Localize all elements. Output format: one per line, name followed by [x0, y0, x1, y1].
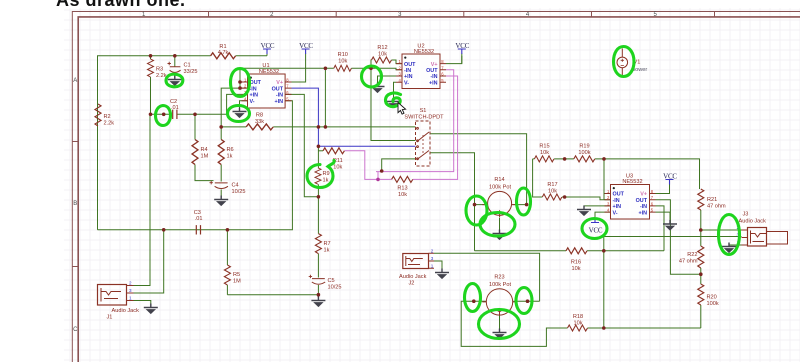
wire R11 left stub	[318, 150, 323, 152]
wire R4 column	[195, 114, 214, 180]
wire U3 pin6 feedback	[656, 206, 665, 251]
capacitor C4	[210, 181, 246, 196]
resistor R9	[315, 168, 330, 184]
svg-text:2: 2	[129, 281, 132, 286]
power flag VCC (U3 V- below)	[589, 218, 603, 235]
svg-text:R5: R5	[233, 272, 240, 278]
ground (U3 +IN)	[577, 206, 591, 217]
power flag VCC (U3 top)	[663, 173, 677, 185]
svg-text:C4: C4	[232, 183, 239, 189]
wire R6 column to C4	[220, 127, 222, 182]
svg-text:V-: V-	[613, 211, 618, 217]
svg-text:+IN: +IN	[250, 93, 259, 99]
svg-text:R2: R2	[104, 114, 111, 120]
mouse cursor	[398, 103, 406, 115]
wire U3 pin7 out loop	[656, 200, 701, 275]
svg-text:NE5532: NE5532	[414, 49, 434, 55]
resistor R6	[218, 140, 233, 165]
svg-text:V-: V-	[404, 81, 409, 87]
wire U3 pin4 to VCC below	[595, 212, 611, 217]
svg-text:4.7k: 4.7k	[218, 50, 229, 56]
svg-text:VCC: VCC	[261, 42, 275, 50]
ground (U2 +IN)	[371, 83, 385, 94]
annotation circle (V1)	[614, 47, 635, 77]
pink net U2 pin6 to R13 right	[413, 76, 458, 179]
wire J3 pin2 row	[701, 229, 742, 231]
wire switch pin4 drop	[382, 159, 416, 171]
svg-text:R6: R6	[227, 147, 234, 153]
resistor R3	[148, 59, 167, 79]
wire U1 pin4 to ground	[240, 101, 248, 108]
svg-text:47 ohm: 47 ohm	[679, 259, 698, 265]
svg-text:R10: R10	[338, 52, 348, 58]
wire pot R14 wiper	[499, 218, 501, 231]
svg-text:R19: R19	[579, 144, 589, 150]
wire row 114 C2 R4 to U1 pin3	[151, 94, 242, 114]
svg-text:V+: V+	[640, 192, 647, 198]
svg-text:10k: 10k	[571, 266, 580, 272]
svg-text:10k: 10k	[333, 165, 342, 171]
wire J2 pin3 ground	[434, 261, 442, 270]
annotation circles (R23 pot)	[465, 284, 481, 312]
svg-text:R7: R7	[324, 241, 331, 247]
resistor R19	[574, 144, 595, 162]
frame column numbers	[73, 12, 657, 333]
capacitor C3	[194, 210, 203, 235]
svg-text:1k: 1k	[324, 248, 330, 254]
svg-text:1k: 1k	[323, 178, 329, 184]
svg-text:V+: V+	[276, 80, 283, 86]
ground (R14 wiper)	[493, 230, 507, 241]
svg-text:33k: 33k	[255, 119, 264, 125]
svg-text:OUT: OUT	[404, 62, 416, 68]
svg-text:R14: R14	[494, 177, 504, 183]
svg-text:Audio Jack: Audio Jack	[399, 274, 427, 280]
svg-text:A: A	[73, 78, 77, 84]
resistor R12	[372, 45, 392, 63]
svg-text:2.2k: 2.2k	[104, 121, 115, 127]
svg-text:R17: R17	[547, 182, 557, 188]
ground (J3)	[722, 243, 736, 254]
ground (J2)	[435, 269, 449, 280]
wire J3 pin3 row	[604, 236, 742, 238]
svg-text:100k: 100k	[707, 301, 719, 307]
svg-text:J3: J3	[743, 212, 749, 218]
svg-text:S1: S1	[420, 108, 427, 114]
resistor R18	[568, 314, 588, 331]
svg-text:V+: V+	[431, 62, 438, 68]
wire C1 stub	[174, 56, 176, 78]
op-amp U2 NE5532	[396, 44, 446, 89]
resistor R5	[224, 265, 241, 285]
svg-text:1: 1	[431, 263, 434, 268]
svg-text:R4: R4	[201, 147, 208, 153]
svg-text:SWITCH-DPDT: SWITCH-DPDT	[404, 115, 444, 121]
svg-text:1k: 1k	[227, 154, 233, 160]
wire U1 pin6 down to R9 bottom	[285, 94, 318, 196]
svg-text:10k: 10k	[548, 189, 557, 195]
wire left loop top row	[98, 56, 268, 230]
svg-text:100k: 100k	[578, 150, 590, 156]
wire R3 column	[150, 56, 152, 115]
wire U2 pin3 to ground	[378, 76, 397, 83]
wire R7 column C5	[227, 197, 318, 298]
svg-text:10k: 10k	[573, 321, 582, 327]
capacitor C5	[309, 275, 342, 291]
svg-text:100k Pot: 100k Pot	[489, 282, 512, 288]
resistor R4	[192, 140, 209, 165]
resistor R17	[542, 182, 562, 200]
svg-text:10k: 10k	[540, 150, 549, 156]
power flag VCC (U2)	[455, 42, 469, 54]
power flag VCC (U1 area right)	[299, 42, 313, 54]
svg-text:VCC: VCC	[663, 173, 677, 181]
svg-text:+IN: +IN	[613, 204, 622, 210]
svg-text:-IN: -IN	[430, 74, 437, 80]
svg-text:V-: V-	[250, 99, 255, 105]
wire J1 pin1 to ground	[134, 301, 151, 304]
wire V1 stubs	[621, 49, 623, 77]
ground (J1)	[144, 304, 158, 315]
wire U2 pin8 to VCC	[446, 54, 462, 64]
wire U1 pin2 to R6 top	[221, 88, 241, 127]
svg-text:OUT: OUT	[426, 68, 438, 74]
svg-text:OUT: OUT	[250, 80, 262, 86]
wire switch out B to pot R14 left down to R16 row	[430, 153, 486, 251]
resistor R10	[334, 52, 352, 71]
power flag VCC (U1 area left)	[261, 42, 275, 54]
resistor R2	[95, 104, 114, 127]
svg-text:10/25: 10/25	[232, 189, 246, 195]
resistor R16	[566, 248, 587, 272]
svg-text:10k: 10k	[398, 192, 407, 198]
svg-text:-IN: -IN	[613, 198, 620, 204]
wire U3 pin3 ground	[584, 205, 611, 208]
svg-text:VCC: VCC	[455, 42, 469, 50]
svg-text:C: C	[73, 327, 78, 333]
wire J1 pin3 riser	[134, 230, 164, 293]
wire pot R23 left bottom loop R18	[461, 301, 701, 346]
svg-text:100k Pot: 100k Pot	[489, 185, 512, 191]
svg-text:VCC: VCC	[589, 227, 603, 235]
ground (R23 wiper)	[493, 329, 507, 340]
wire U2 VCC link	[461, 56, 463, 64]
wire R21 R22 column	[700, 210, 702, 328]
capacitor C1	[168, 62, 198, 75]
svg-text:-IN: -IN	[404, 68, 411, 74]
svg-text:R12: R12	[377, 45, 387, 51]
svg-text:47 ohm: 47 ohm	[707, 204, 726, 210]
wire J2 pin2 to pot R23 right	[434, 253, 540, 301]
svg-text:OUT: OUT	[272, 86, 284, 92]
svg-text:C5: C5	[328, 278, 335, 284]
svg-text:.01: .01	[171, 105, 179, 111]
svg-text:R13: R13	[397, 186, 407, 192]
wire U1 pin5 to row 230	[98, 101, 293, 230]
audio jack J1	[98, 281, 140, 321]
annotation circle (U1 input pins)	[231, 69, 250, 97]
svg-text:1M: 1M	[201, 154, 209, 160]
annotation circle (U2 corner ground)	[362, 66, 382, 87]
junction dot (pink net)	[376, 178, 380, 182]
resistor R7	[315, 234, 330, 254]
ground (U1 V-)	[233, 108, 247, 119]
wire R16 row	[475, 250, 665, 252]
svg-text:J1: J1	[107, 315, 113, 321]
ground (C1)	[168, 76, 182, 87]
svg-text:Audio Jack: Audio Jack	[112, 308, 140, 314]
resistor R13	[392, 176, 413, 198]
svg-text:R22: R22	[687, 252, 697, 258]
wire J3 pin1 ground	[729, 244, 742, 247]
annotation circle (C2 junction)	[156, 106, 171, 126]
svg-text:R23: R23	[494, 275, 504, 281]
wire U1 out node	[240, 68, 402, 88]
wire R8 feedback row 127	[221, 126, 415, 128]
svg-text:+IN: +IN	[274, 99, 283, 105]
wire R15 R19 row	[533, 159, 700, 189]
svg-text:B: B	[73, 201, 77, 207]
svg-text:R20: R20	[707, 295, 717, 301]
svg-text:R9: R9	[323, 171, 330, 177]
wire R15 left to R17	[533, 159, 611, 200]
blue net U1 out B to switch	[292, 88, 416, 146]
svg-text:+IN: +IN	[429, 81, 438, 87]
svg-text:1M: 1M	[233, 279, 241, 285]
wire pot R23 wiper	[499, 315, 501, 330]
audio jack J2	[399, 248, 434, 286]
wire R18 R16 link riser	[603, 237, 605, 329]
annotation circles (R14 pot)	[466, 196, 487, 225]
ground (C4)	[214, 196, 228, 207]
wire R9 column	[317, 146, 319, 197]
svg-text:+IN: +IN	[404, 74, 413, 80]
annotation circle (R9)	[307, 161, 334, 188]
svg-text:-IN: -IN	[640, 204, 647, 210]
svg-text:R3: R3	[156, 67, 163, 73]
switch S1 SWITCH-DPDT	[404, 108, 444, 166]
ground (C5)	[311, 297, 325, 308]
svg-text:U1: U1	[262, 63, 269, 69]
wire R5 column	[226, 230, 228, 295]
capacitor C2	[170, 99, 179, 119]
voltage source V1 power	[617, 57, 647, 73]
svg-text:10k: 10k	[378, 52, 387, 58]
svg-text:C1: C1	[184, 63, 191, 69]
svg-text:NE5532: NE5532	[622, 179, 642, 185]
svg-text:3: 3	[431, 256, 434, 261]
resistor R20	[698, 284, 719, 307]
annotation circle (J3)	[719, 215, 740, 255]
wire J1 pin2 riser	[134, 114, 151, 285]
resistor R11	[323, 148, 344, 171]
wire switch out A to pot R14 right	[430, 134, 527, 205]
svg-text:R8: R8	[256, 113, 263, 119]
ground (U3 5)	[663, 220, 677, 231]
wire R19 node to U3 pin2	[603, 159, 605, 200]
wire VCC1 stub	[266, 54, 268, 56]
svg-text:33/25: 33/25	[184, 69, 198, 75]
audio jack J3	[737, 212, 788, 247]
svg-text:Audio Jack: Audio Jack	[739, 218, 767, 224]
annotation curl (U2 V- ground)	[385, 93, 400, 107]
wire U3 pin8 VCC	[656, 184, 670, 194]
svg-text:1: 1	[129, 296, 132, 301]
svg-text:VCC: VCC	[299, 42, 313, 50]
wire U3 pin5 ground	[656, 212, 671, 220]
potentiometer R23 100k Pot	[482, 275, 516, 316]
op-amp U3 NE5532	[605, 173, 656, 219]
resistor R21	[698, 189, 726, 210]
potentiometer R14 100k Pot	[482, 177, 517, 217]
ground (U2 V-)	[387, 98, 401, 109]
svg-text:R15: R15	[539, 144, 549, 150]
svg-text:.01: .01	[195, 216, 203, 222]
resistor R15	[534, 144, 554, 162]
svg-text:2: 2	[431, 248, 434, 253]
op-amp U1 NE5532	[242, 63, 292, 108]
wire U2 pin4 to ground	[394, 82, 397, 97]
resistor R22	[679, 246, 704, 268]
svg-text:3: 3	[129, 288, 132, 293]
wire U1 pin8 to VCC	[285, 54, 306, 83]
svg-text:OUT: OUT	[636, 198, 648, 204]
annotation circle (VCC at U3)	[582, 219, 607, 239]
annotation circle (C1 ground)	[166, 74, 183, 87]
svg-text:+IN: +IN	[638, 211, 647, 217]
svg-text:-IN: -IN	[276, 93, 283, 99]
svg-text:R16: R16	[571, 260, 581, 266]
svg-text:OUT: OUT	[613, 192, 625, 198]
wire vcc drop to row127	[324, 68, 326, 127]
svg-text:10/25: 10/25	[328, 285, 342, 291]
resistor R1	[211, 44, 236, 59]
resistor R8	[246, 113, 273, 130]
svg-text:10k: 10k	[338, 59, 347, 65]
svg-text:R18: R18	[573, 314, 583, 320]
wire R10 to R12 and switch feed	[371, 60, 416, 141]
pink net U2 pin7 to R11 R13	[345, 70, 454, 180]
svg-text:J2: J2	[409, 280, 415, 286]
annotation circle (U1 ground)	[228, 106, 250, 122]
svg-text:NE5532: NE5532	[259, 69, 279, 75]
svg-text:R21: R21	[707, 197, 717, 203]
